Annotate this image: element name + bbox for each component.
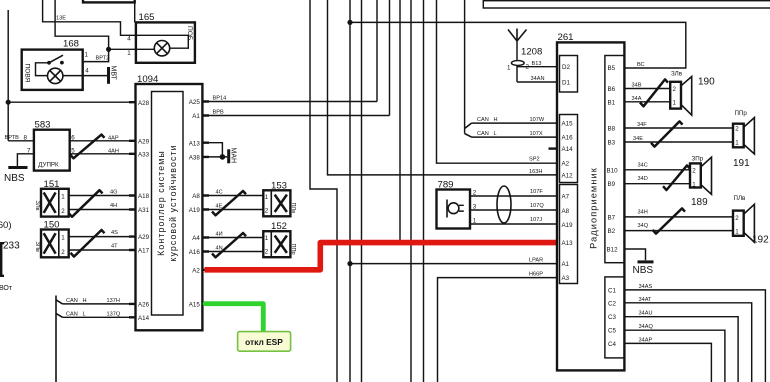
svg-text:C4: C4 <box>608 341 616 348</box>
wire vertical x350 (BC / LPAR bus) <box>349 0 351 382</box>
twisted pair mark 190 <box>640 79 668 106</box>
svg-text:583: 583 <box>35 119 51 130</box>
svg-text:107Q: 107Q <box>530 203 544 209</box>
twisted pair mark 152 <box>212 233 246 257</box>
wire CAN L to A14 <box>63 316 136 318</box>
svg-text:B6: B6 <box>608 86 616 93</box>
antenna stem <box>516 41 518 82</box>
speaker 192 <box>733 195 769 246</box>
svg-text:4И: 4И <box>216 232 223 238</box>
ground MAH <box>229 148 237 164</box>
svg-text:C5: C5 <box>608 328 616 335</box>
1094 left pin stubs <box>129 102 136 317</box>
svg-text:C1: C1 <box>608 287 616 294</box>
svg-text:34В: 34В <box>632 83 642 89</box>
tweeter 152 <box>263 221 296 257</box>
twisted pair mark 192 <box>653 208 686 233</box>
svg-text:165: 165 <box>139 12 155 23</box>
wire 4AP 583 pin6 to A29 <box>70 140 136 142</box>
wire BPB from A1 <box>202 115 389 117</box>
wire left vertical x8.2 <box>7 10 9 141</box>
svg-text:D1: D1 <box>562 80 570 87</box>
svg-text:CAN L: CAN L <box>66 311 86 317</box>
svg-text:А12: А12 <box>562 172 574 179</box>
svg-text:4: 4 <box>85 67 89 74</box>
svg-text:2: 2 <box>61 249 65 256</box>
svg-text:163Н: 163Н <box>529 169 542 175</box>
svg-text:4АН: 4АН <box>108 149 119 155</box>
callout box otkl ESP <box>238 332 291 352</box>
wire 4C A8 to 153 pin1 <box>202 195 263 197</box>
svg-text:А1: А1 <box>562 261 570 268</box>
svg-text:4G: 4G <box>110 190 117 196</box>
ground NBS (left) <box>4 168 28 185</box>
wire B13 to D2 <box>517 66 557 68</box>
box 168 <box>22 50 83 90</box>
box 789 <box>437 190 471 229</box>
svg-text:34С: 34С <box>638 162 648 168</box>
1094 right pin stubs <box>202 102 209 304</box>
internal wire lamp to pin 4 <box>63 75 83 77</box>
CAN twist hooks <box>465 123 472 137</box>
pin box B <box>605 56 625 263</box>
svg-text:1: 1 <box>735 140 739 147</box>
wire 34A B1 to speaker 190 <box>624 101 670 103</box>
wire 583 pin7 to NBS ground <box>17 154 34 166</box>
wire CAN bus vertical x56 <box>55 296 57 382</box>
svg-text:2: 2 <box>735 215 739 222</box>
box top-left partial <box>83 0 135 2</box>
wire BP14 from A25 <box>202 101 377 103</box>
svg-text:4: 4 <box>127 36 131 43</box>
wire CAN H to A26 <box>63 303 136 305</box>
svg-text:34Н: 34Н <box>638 210 648 216</box>
svg-text:ВРТВ: ВРТВ <box>5 135 20 141</box>
wire 34AS C1 <box>624 290 765 382</box>
wire from top box right edge down to 165 <box>134 3 136 23</box>
switch lever <box>49 55 63 63</box>
wire 34AP C4 <box>624 343 711 382</box>
svg-text:А16: А16 <box>189 249 201 256</box>
svg-text:А28: А28 <box>138 100 150 107</box>
wire 34Q B2 to speaker 192 <box>624 230 733 232</box>
sensor 583 DUPRK <box>24 119 76 170</box>
wire 34D B9 to speaker 189 <box>624 183 690 185</box>
svg-text:34D: 34D <box>638 176 648 182</box>
svg-text:Н66Р: Н66Р <box>529 271 543 277</box>
svg-text:А8: А8 <box>192 193 200 200</box>
svg-text:А38: А38 <box>189 155 201 162</box>
svg-text:А19: А19 <box>562 222 574 229</box>
svg-text:В13: В13 <box>532 61 542 67</box>
svg-text:ВРТ2: ВРТ2 <box>96 56 110 62</box>
svg-text:1: 1 <box>85 51 89 58</box>
box 153 <box>263 190 290 216</box>
svg-text:189: 189 <box>691 197 708 208</box>
box 1094 <box>136 84 203 330</box>
svg-text:ЗПв: ЗПв <box>34 242 40 252</box>
svg-text:А15: А15 <box>189 302 201 309</box>
wire vertical x411 <box>410 0 412 382</box>
inner module rect <box>152 92 184 316</box>
svg-text:А29: А29 <box>138 234 150 241</box>
svg-text:МВТ: МВТ <box>110 66 117 81</box>
box 261 <box>557 42 624 370</box>
svg-text:B9: B9 <box>608 181 616 188</box>
svg-text:А14: А14 <box>138 315 150 322</box>
wire 34AQ C5 <box>624 330 725 382</box>
wire 4N A16 to 152 pin2 <box>202 251 263 253</box>
svg-text:1: 1 <box>61 234 65 241</box>
svg-text:А16: А16 <box>562 135 574 142</box>
svg-text:МАН: МАН <box>230 148 237 164</box>
svg-text:1: 1 <box>127 50 131 57</box>
wire A38 to MAH ground <box>202 156 227 158</box>
svg-text:А26: А26 <box>138 302 150 309</box>
svg-text:ЗПр: ЗПр <box>692 155 704 162</box>
wire top link from junction x350 to BC pin B5 <box>350 22 686 68</box>
svg-text:А7: А7 <box>562 193 570 200</box>
wire 107F 789 pin2 to A7 <box>470 195 557 197</box>
speaker 191 <box>733 110 754 169</box>
svg-text:1208: 1208 <box>521 47 542 58</box>
svg-text:107W: 107W <box>530 117 545 123</box>
wire BPTB to 583 pin 8 <box>8 140 34 142</box>
svg-text:А14: А14 <box>562 146 574 153</box>
wire 4T 150 pin2 to A17 <box>69 249 136 251</box>
wire 34C B10 to speaker 189 <box>624 169 690 171</box>
svg-text:B10: B10 <box>607 167 619 174</box>
svg-text:А19: А19 <box>189 207 201 214</box>
svg-text:SP2: SP2 <box>529 157 540 163</box>
wire vertical x377 joins BP14 <box>376 0 378 102</box>
svg-text:1: 1 <box>473 217 477 224</box>
svg-text:D2: D2 <box>562 64 570 71</box>
wire 34F B8 to speaker 191 <box>624 127 733 129</box>
svg-text:CAN H: CAN H <box>477 117 498 123</box>
svg-text:А13: А13 <box>189 140 201 147</box>
svg-text:3: 3 <box>473 203 477 210</box>
svg-text:А33: А33 <box>138 151 150 158</box>
svg-text:191: 191 <box>733 158 750 169</box>
X symbol <box>44 193 56 213</box>
svg-text:ПЛв: ПЛв <box>290 203 296 214</box>
jack symbol <box>446 200 448 218</box>
svg-text:А29: А29 <box>138 138 150 145</box>
svg-text:34АР: 34АР <box>639 337 653 343</box>
svg-text:2: 2 <box>61 208 65 215</box>
X symbol <box>275 195 287 212</box>
wire vertical x361.5 <box>361 0 363 382</box>
svg-text:ПЛв: ПЛв <box>734 195 747 202</box>
wire SP2: vertical x436.5 to pin A2 <box>437 0 558 163</box>
svg-text:А2: А2 <box>562 161 570 168</box>
box 152 <box>263 231 290 257</box>
box 583 <box>34 130 70 171</box>
wire 4G 151 pin1 to A18 <box>69 195 136 197</box>
twisted pair mark 153 <box>212 191 246 215</box>
pin box A lower <box>560 185 578 284</box>
svg-text:151: 151 <box>44 179 60 190</box>
box 151 <box>41 189 69 217</box>
svg-text:233: 233 <box>3 241 20 252</box>
svg-text:А8: А8 <box>562 208 570 215</box>
svg-text:1: 1 <box>692 181 696 188</box>
wire A13 to MAH ground <box>202 143 222 157</box>
svg-text:(60): (60) <box>0 220 12 231</box>
svg-text:Радиоприемник: Радиоприемник <box>589 167 599 249</box>
svg-text:NBS: NBS <box>633 265 654 276</box>
svg-text:B7: B7 <box>608 214 616 221</box>
junction dot A28 branch <box>6 100 11 105</box>
svg-text:А31: А31 <box>138 207 150 214</box>
junction dot at 350,22.4 <box>347 20 352 25</box>
wire from top to 168 pin 1 via junction <box>55 0 109 62</box>
wire CAN pair vertical x464.6 <box>464 0 466 134</box>
svg-text:2: 2 <box>735 126 739 133</box>
svg-text:ВРВ: ВРВ <box>213 110 224 116</box>
svg-text:1: 1 <box>507 65 511 72</box>
pin box C <box>605 277 625 358</box>
connector 233 partial at edge <box>1 243 4 276</box>
svg-text:B12: B12 <box>607 247 619 254</box>
wire 34AT C2 <box>624 303 751 382</box>
svg-text:137Q: 137Q <box>107 311 121 317</box>
svg-text:789: 789 <box>438 179 454 190</box>
twisted pair mark 150 <box>71 230 105 257</box>
svg-text:261: 261 <box>558 32 574 43</box>
switch-lamp unit 168 <box>22 39 83 90</box>
X symbol <box>275 236 287 253</box>
svg-text:4Т: 4Т <box>111 243 118 249</box>
svg-text:34Q: 34Q <box>638 223 649 229</box>
svg-text:1: 1 <box>265 235 269 242</box>
svg-text:1: 1 <box>265 194 269 201</box>
svg-text:152: 152 <box>271 221 287 232</box>
svg-text:А3: А3 <box>562 275 570 282</box>
wire LPAR from x350 junction to pin A1 <box>350 263 557 265</box>
junction dot at 350,263.6 <box>347 261 352 266</box>
junction dot at 108.6,49.3 <box>106 47 111 52</box>
svg-text:откл ESP: откл ESP <box>245 337 283 347</box>
wire 4E A19 to 153 pin2 <box>202 209 263 211</box>
lamp unit 165 <box>136 12 195 63</box>
wire 4I A4 to 152 pin1 <box>202 237 263 239</box>
wire H66P from bottom to pin A3 <box>438 278 558 382</box>
pin box A upper <box>560 115 578 183</box>
svg-text:137Н: 137Н <box>107 298 120 304</box>
svg-text:2: 2 <box>265 208 269 215</box>
svg-text:34Е: 34Е <box>633 136 643 142</box>
svg-text:1094: 1094 <box>137 74 159 85</box>
speaker 190 <box>670 70 715 115</box>
internal wire to lamp <box>36 63 50 76</box>
twisted pair mark 583 <box>70 135 105 159</box>
wire 34B B6 to speaker 190 <box>624 88 670 90</box>
svg-text:А13: А13 <box>562 240 574 247</box>
box top-right partial <box>483 1 770 8</box>
wire vertical x310 jog to x337 <box>310 0 337 382</box>
wire vertical x400 (covered by red highlight at A13 row) <box>399 0 401 242</box>
twisted pair mark 151 <box>69 190 103 217</box>
wire 34H B7 to speaker 192 <box>624 216 733 218</box>
svg-text:А4: А4 <box>192 235 200 242</box>
svg-text:ПОВЯ: ПОВЯ <box>24 64 31 83</box>
svg-text:ВОт: ВОт <box>0 285 13 292</box>
antenna mast <box>508 29 527 42</box>
svg-text:А1: А1 <box>192 113 200 120</box>
svg-text:C3: C3 <box>608 314 616 321</box>
wire CAN L to A16 <box>472 136 558 138</box>
svg-text:А15: А15 <box>562 121 574 128</box>
svg-text:1: 1 <box>735 229 739 236</box>
svg-text:34АN: 34АN <box>531 76 545 82</box>
svg-text:34F: 34F <box>637 122 647 128</box>
svg-text:34AU: 34AU <box>639 311 653 317</box>
svg-text:B5: B5 <box>608 65 616 72</box>
svg-text:А17: А17 <box>138 248 150 255</box>
speaker 189 <box>690 155 712 208</box>
svg-text:34АQ: 34АQ <box>639 324 654 330</box>
svg-text:1: 1 <box>673 100 677 107</box>
svg-text:4S: 4S <box>111 230 118 236</box>
svg-text:107X: 107X <box>530 131 543 137</box>
wire 168 pin4 to MVT ground <box>83 75 107 77</box>
svg-text:LPAR: LPAR <box>529 257 543 263</box>
wire 4H 151 pin2 to A31 <box>69 209 136 211</box>
svg-text:CAN H: CAN H <box>66 298 87 304</box>
X symbol <box>44 233 56 253</box>
lamp circle with X <box>154 41 169 56</box>
twisted pair mark 189 <box>663 165 690 190</box>
svg-text:34АТ: 34АТ <box>639 297 653 303</box>
svg-text:C2: C2 <box>608 300 616 307</box>
wire 4AH 583 pin5 to A33 <box>70 153 136 155</box>
svg-text:107F: 107F <box>530 189 543 195</box>
svg-text:курсовой устойчивости: курсовой устойчивости <box>168 144 178 261</box>
wire 4S 150 pin1 to A29 <box>69 236 136 238</box>
svg-text:B8: B8 <box>608 126 616 133</box>
svg-text:2: 2 <box>692 168 696 175</box>
svg-text:А2: А2 <box>192 268 200 275</box>
svg-text:CAN L: CAN L <box>477 131 497 137</box>
box 150 <box>41 230 69 258</box>
svg-text:ДУПРК: ДУПРК <box>38 161 59 168</box>
svg-text:ППр: ППр <box>290 244 296 255</box>
svg-text:B1: B1 <box>608 99 616 106</box>
svg-text:190: 190 <box>698 77 715 88</box>
wire 107Q 789 pin3 to A8 <box>470 209 557 211</box>
svg-text:150: 150 <box>44 220 60 231</box>
svg-text:ВС: ВС <box>637 62 645 68</box>
wire 34E B3 to speaker 191 <box>624 141 733 143</box>
svg-text:2: 2 <box>265 249 269 256</box>
svg-text:ППр: ППр <box>735 110 748 117</box>
svg-text:13Е: 13Е <box>56 16 66 22</box>
shield ellipse <box>497 186 511 223</box>
wire 163H: vertical x327.5 to pin A12 <box>328 0 558 175</box>
svg-text:B2: B2 <box>608 228 616 235</box>
wire CAN H to A15 <box>472 122 558 124</box>
wire 107J 789 pin1 to A19 <box>470 223 557 225</box>
svg-text:NBS: NBS <box>4 173 25 184</box>
svg-text:ВР14: ВР14 <box>213 96 227 102</box>
svg-text:4С: 4С <box>216 190 223 196</box>
svg-text:4Н: 4Н <box>110 203 117 209</box>
svg-text:ЗЛв: ЗЛв <box>34 201 40 211</box>
feedthrough ellipse <box>511 61 524 66</box>
svg-text:2: 2 <box>673 86 677 93</box>
wire 13E from top to 165 pin 4 <box>43 0 136 35</box>
svg-text:4АР: 4АР <box>108 136 119 142</box>
box 165 <box>136 22 195 62</box>
pin A14 stub <box>549 147 558 149</box>
svg-text:8: 8 <box>24 135 28 142</box>
twisted pair mark 191 <box>651 121 683 146</box>
svg-text:153: 153 <box>271 180 287 191</box>
svg-text:ЗЛв: ЗЛв <box>671 70 683 77</box>
tweeter 153 <box>263 180 296 216</box>
svg-text:Контроллер системы: Контроллер системы <box>156 150 166 256</box>
wire 34AN to D1 <box>517 81 557 83</box>
svg-text:107J: 107J <box>530 217 542 223</box>
internal wires <box>136 35 188 49</box>
svg-text:1: 1 <box>61 193 65 200</box>
svg-text:B3: B3 <box>608 140 616 147</box>
svg-text:34А: 34А <box>632 96 642 102</box>
svg-text:А25: А25 <box>189 99 201 106</box>
svg-text:А18: А18 <box>138 193 150 200</box>
ground NBS (right) <box>633 262 654 276</box>
lamp circle with X <box>48 68 63 83</box>
svg-text:2: 2 <box>473 189 477 196</box>
svg-text:34АS: 34АS <box>639 284 653 290</box>
switch contacts <box>47 61 51 65</box>
wire to A28 <box>8 101 135 103</box>
CAN twist hooks <box>56 300 63 318</box>
junction dot A38/A13 <box>220 154 226 160</box>
wire vertical x389.5 joins BPB <box>389 0 391 116</box>
svg-text:ПОБ: ПОБ <box>186 26 193 40</box>
wire B12 to NBS ground <box>624 249 645 260</box>
svg-text:168: 168 <box>63 39 79 50</box>
wire junction to 165 pin 1 <box>109 48 136 50</box>
wire vertical x423.5 <box>423 0 425 382</box>
wire 34AU C3 <box>624 317 738 382</box>
ground MVT <box>109 66 117 84</box>
pin box D <box>560 56 578 93</box>
